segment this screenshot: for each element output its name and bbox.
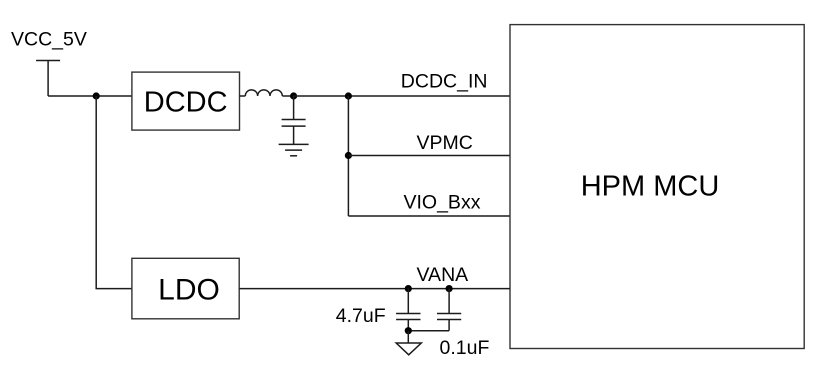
wire vertical branch VPMC/VIO xyxy=(347,96,349,216)
MCU box U1 xyxy=(510,25,804,349)
wire VCC to DCDC xyxy=(48,95,132,97)
LDO box xyxy=(132,258,239,319)
wire to ground triangle xyxy=(407,331,409,343)
wire C3 bottom to C2 bottom xyxy=(408,330,449,332)
capacitor C1 xyxy=(282,96,306,144)
svg-text:DCDC_IN: DCDC_IN xyxy=(401,71,488,93)
capacitor C2 4.7uF xyxy=(396,289,420,331)
DCDC box xyxy=(132,72,240,130)
ground symbol at C1 xyxy=(279,144,309,155)
wire vertical branch to LDO xyxy=(96,96,132,289)
svg-text:VPMC: VPMC xyxy=(417,132,473,154)
svg-text:VIO_Bxx: VIO_Bxx xyxy=(404,192,481,214)
junction dot node VANA at C3 xyxy=(446,285,453,292)
junction dot branch node on DCDC_IN xyxy=(345,92,352,99)
junction dot ground node xyxy=(405,327,412,334)
wire VPMC to MCU xyxy=(348,155,510,157)
junction dot node VCC rail xyxy=(93,92,100,99)
capacitor C3 0.1uF xyxy=(437,289,461,331)
inductor L1 xyxy=(240,90,294,96)
svg-text:0.1uF: 0.1uF xyxy=(440,337,490,359)
svg-text:HPM MCU: HPM MCU xyxy=(581,170,720,202)
svg-text:DCDC: DCDC xyxy=(144,86,228,118)
junction dot node DCDC_IN at C1 xyxy=(290,92,297,99)
svg-text:LDO: LDO xyxy=(158,273,220,306)
junction dot node VPMC xyxy=(345,152,352,159)
wire VIO_Bxx to MCU xyxy=(348,215,510,217)
wire DCDC_IN to MCU xyxy=(294,95,510,97)
power symbol VCC_5V bar xyxy=(36,61,60,97)
ground symbol triangle xyxy=(396,343,421,355)
svg-text:4.7uF: 4.7uF xyxy=(336,305,386,327)
junction dot node VANA at C2 xyxy=(405,285,412,292)
svg-text:VANA: VANA xyxy=(417,264,469,286)
wire VANA LDO to MCU xyxy=(239,288,510,290)
svg-text:VCC_5V: VCC_5V xyxy=(11,29,87,51)
